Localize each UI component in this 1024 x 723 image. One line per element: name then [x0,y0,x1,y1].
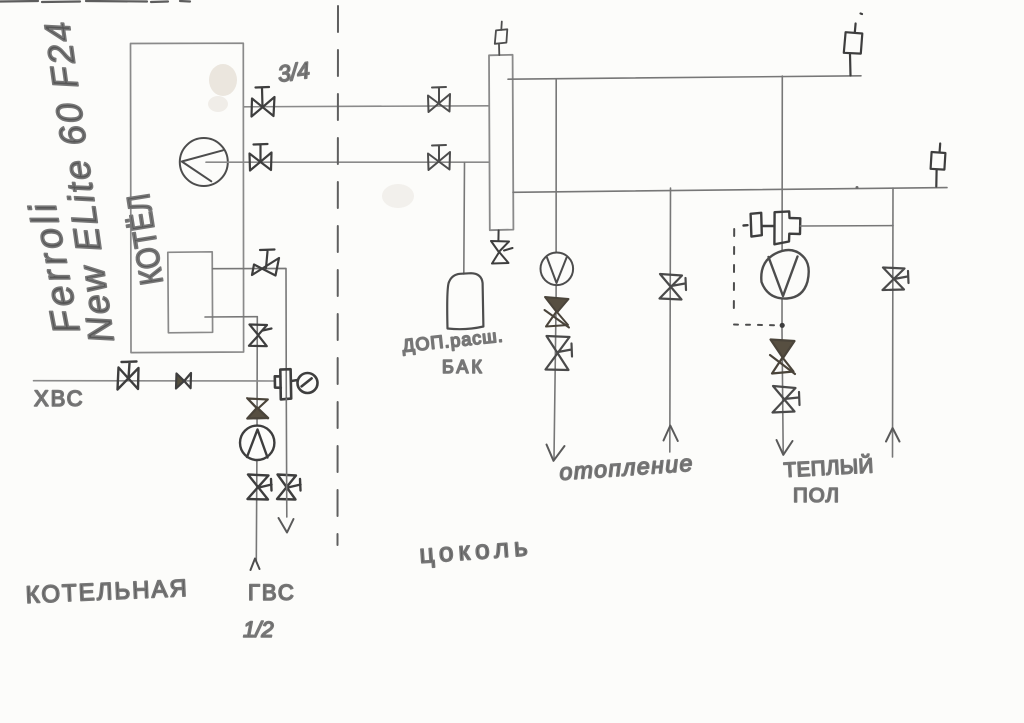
arrow down heating [547,445,565,461]
heating return riser [669,188,672,452]
DHW top line from HX [213,268,287,399]
arrow up heating return [664,426,678,442]
boiler box [131,43,244,352]
smudge [209,64,237,96]
check valve XBC [176,373,191,389]
arrow down DHW [279,518,294,533]
wire drop to expansion tank [463,163,466,275]
valve V1 3/4 [252,87,275,117]
HX bottom line [205,316,257,318]
filled valve DHW [247,398,268,419]
pump P1 (boiler) [180,138,228,186]
svg-text:1/2: 1/2 [243,617,274,642]
heat exchanger box [168,252,213,333]
XBC pipe [34,380,276,382]
valve heating return [660,274,687,300]
pump P3 warm floor [761,250,808,299]
pump P4 DHW [240,426,274,460]
actuator [751,213,762,237]
hydraulic separator [489,55,513,230]
valve warm floor [773,386,800,413]
valve DHW left [248,475,272,500]
junction dot [780,323,785,328]
expansion tank [447,273,483,329]
arrow up warm floor return [886,428,900,442]
three-way output wire [800,225,893,227]
return pipe [513,188,947,193]
tick above ГВС [251,559,260,571]
valve above XBC junction [249,325,272,347]
thermo mixing valve DHW [275,369,298,399]
air vent mid right [931,144,946,187]
valve V3 (supply before separator) [428,87,450,112]
ball valve XBC [118,362,139,390]
air vent top right [844,14,863,76]
filled valve warm floor [770,340,795,375]
valve warm floor return [883,268,909,291]
pump P2 heating [541,252,574,285]
scan artifact top edge [0,1,190,2]
three-way mixing valve body [744,211,801,244]
wire boiler return to separator [206,161,489,163]
warm floor drop [782,76,783,453]
valve V2 [250,144,272,171]
valve DHW out [252,250,279,276]
valve heating supply [546,336,573,370]
svg-text:БАК: БАК [442,357,485,377]
left DHW riser [256,317,257,561]
arrow down warm floor [777,440,793,455]
svg-text:ТЕПЛЫЙ: ТЕПЛЫЙ [783,453,874,482]
air vent on separator [495,22,508,56]
wire boiler supply to separator [244,106,489,107]
filled valve heating [545,297,570,328]
svg-text:3/4: 3/4 [276,57,311,87]
warm floor right riser [892,188,895,457]
heating supply drop [554,79,556,458]
valve V4 (return before separator) [428,145,450,170]
svg-text:ГВС: ГВС [248,580,296,605]
dashed control line [733,229,735,318]
mixed DHW riser valve [277,475,301,500]
drain valve under separator [491,231,513,264]
top supply pipe [508,76,861,79]
svg-text:ХВС: ХВС [34,386,85,411]
dashed zone line [337,6,340,545]
svg-text:ПОЛ: ПОЛ [793,484,840,507]
